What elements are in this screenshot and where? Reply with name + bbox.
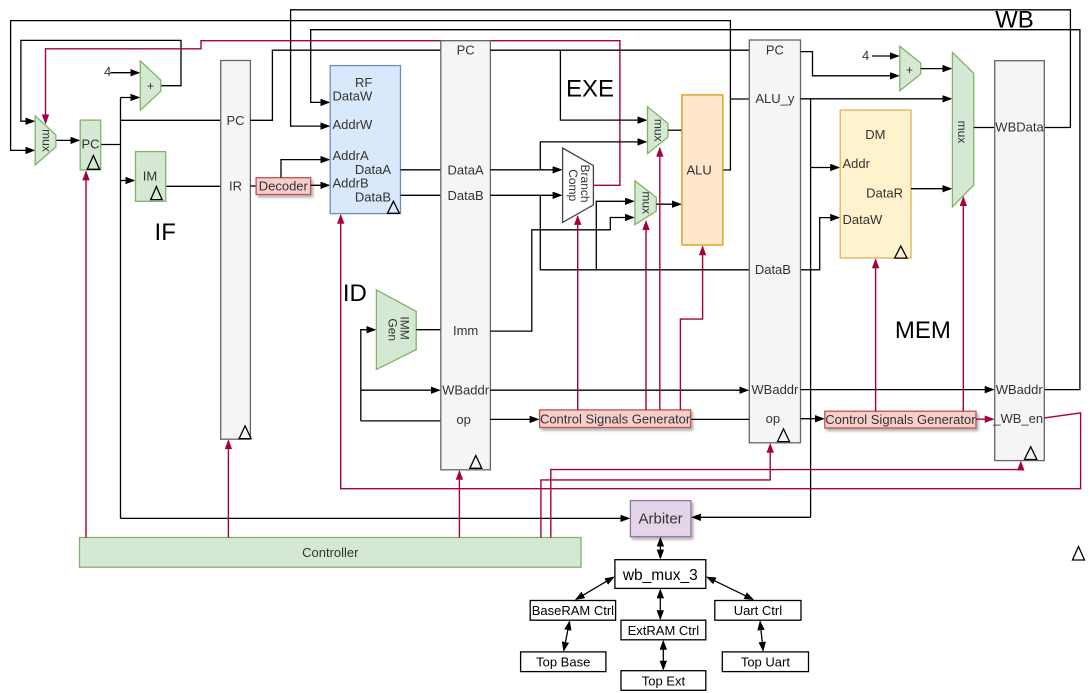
- wire constant 4 into adder A2: [862, 48, 898, 63]
- svg-text:MEM: MEM: [895, 317, 951, 344]
- DM data memory: [840, 110, 911, 258]
- clock triangle of IM: [151, 187, 162, 200]
- wire Controller to IF/ID clock (crimson): [227, 441, 229, 538]
- register PC: [80, 120, 101, 170]
- svg-text:_WB_en: _WB_en: [992, 411, 1043, 426]
- label MEM stage: [895, 317, 951, 344]
- wire wb_mux_3 to Uart Ctrl (double arrow): [707, 577, 753, 599]
- Branch Comp comparator: [563, 148, 594, 222]
- svg-text:PC: PC: [81, 137, 99, 152]
- IM instruction memory: [136, 152, 166, 202]
- wire G2 control to DM (crimson): [875, 260, 877, 411]
- svg-text:AddrW: AddrW: [333, 117, 373, 132]
- svg-text:WBaddr: WBaddr: [996, 382, 1044, 397]
- label ID stage: [343, 280, 367, 307]
- svg-text:PC: PC: [457, 43, 475, 58]
- clock triangle of PC register: [87, 156, 99, 170]
- svg-text:Decoder: Decoder: [259, 179, 309, 194]
- Top Ext: [621, 671, 706, 691]
- wire G1 control to mux M2 (crimson): [659, 148, 661, 410]
- wire IMM Gen out to ID/EX Imm: [416, 329, 441, 331]
- wire G2 out to MEM/WB _WB_en (crimson): [976, 418, 993, 420]
- ExtRAM Ctrl: [621, 620, 706, 640]
- ALU: [682, 95, 723, 245]
- svg-text:4: 4: [862, 48, 869, 63]
- Top Base: [521, 652, 606, 672]
- svg-text:+: +: [906, 63, 913, 77]
- svg-text:DataW: DataW: [333, 89, 373, 104]
- wire IF/ID IR out to Decoder: [250, 185, 256, 187]
- wire Controller to EX/MEM clock (crimson): [541, 444, 770, 537]
- wire Decoder to RF AddrB: [311, 184, 329, 186]
- node DataB net: ID/EX DataB to Branch Comp B, down to EX/MEM DataB, mux M3 input 1: [490, 195, 749, 269]
- svg-text:WBaddr: WBaddr: [442, 383, 490, 398]
- wire adder A2 out to mux M4 input 1: [921, 68, 951, 70]
- svg-text:+: +: [147, 79, 154, 93]
- svg-text:WBaddr: WBaddr: [751, 382, 799, 397]
- mux M2 (ALU input A mux): [648, 107, 669, 154]
- svg-text:IMM Gen: IMM Gen: [385, 316, 411, 343]
- wire EX/MEM WBaddr out to MEM/WB WBaddr: [801, 389, 994, 391]
- svg-text:mux: mux: [651, 119, 665, 142]
- node IR fields trunk: feeds IMM Gen, ID/EX WBaddr and op: [361, 330, 441, 421]
- wire _WB_en feedback (crimson): MEM/WB out, down right edge, along bus to RF clock: [341, 215, 1081, 488]
- svg-text:EXE: EXE: [566, 75, 614, 102]
- wire IF/ID PC out, up and over to ID/EX PC in: [250, 50, 440, 120]
- wire ID/EX WBaddr out to EX/MEM WBaddr: [490, 389, 747, 391]
- wire Controller to MEM/WB clock (crimson): [551, 462, 1021, 537]
- svg-text:Arbiter: Arbiter: [639, 511, 683, 528]
- wire ALU result to EX/MEM ALU_y input: [730, 98, 749, 100]
- IMM Gen immediate generator: [376, 290, 416, 370]
- mux M4 (write-back mux): [952, 52, 973, 206]
- pipeline register IF/ID: [221, 61, 251, 440]
- control signals generator G1: [540, 410, 691, 428]
- wire IM out to IF/ID IR: [166, 185, 221, 187]
- svg-text:ALU: ALU: [687, 162, 712, 177]
- svg-text:op: op: [766, 411, 780, 426]
- svg-text:Top Base: Top Base: [536, 655, 590, 670]
- svg-text:DM: DM: [865, 127, 885, 142]
- label EXE stage: [566, 75, 614, 102]
- svg-text:WB: WB: [995, 7, 1034, 34]
- decoder U1: [256, 178, 311, 195]
- Top Uart: [722, 652, 808, 672]
- wire EX/MEM op out to Control Signals Generator G2: [801, 418, 824, 420]
- svg-text:mux: mux: [639, 191, 653, 214]
- wire ID/EX op out to Control Signals Generator G1: [490, 418, 538, 420]
- controller: [80, 538, 582, 568]
- svg-text:DataB: DataB: [755, 262, 791, 277]
- svg-text:BaseRAM Ctrl: BaseRAM Ctrl: [532, 603, 614, 618]
- svg-text:Top Ext: Top Ext: [642, 673, 686, 688]
- node PC trunk: PC register out to adder A1, IF/ID PC, IM, and Arbiter: [101, 98, 629, 519]
- wire DM DataR out to mux M4 input 3: [911, 188, 951, 190]
- wire WBaddr feedback: MEM/WB WBaddr out, up far right side, along top, down to RF DataW: [311, 30, 1080, 390]
- wire G1 out to EX/MEM op: [691, 418, 750, 420]
- clock triangle of IF/ID: [239, 426, 251, 439]
- svg-text:Control Signals Generator: Control Signals Generator: [540, 411, 691, 426]
- clock triangle of EX/MEM: [778, 429, 790, 442]
- svg-text:DataB: DataB: [448, 188, 484, 203]
- wire ALU branch target: ALU out, up, along top, down left edge to mux M1 input 2: [11, 21, 731, 170]
- control signals generator G2: [825, 411, 976, 428]
- wire WBData feedback: MEM/WB WBData out, up right side, along top, down to RF AddrW: [291, 10, 1071, 128]
- svg-text:Branch Comp: Branch Comp: [566, 165, 592, 206]
- svg-text:WBData: WBData: [995, 120, 1044, 135]
- pipeline register EX/MEM: [749, 40, 800, 443]
- adder A2 (PC + 4): [900, 46, 921, 90]
- wire Controller to ID/EX clock (crimson): [458, 471, 460, 537]
- wire mux M4 out to MEM/WB WBData: [974, 127, 995, 129]
- wire mux M1 out to PC register: [56, 139, 79, 141]
- Uart Ctrl: [715, 601, 801, 621]
- svg-text:mux: mux: [39, 129, 53, 152]
- svg-text:IR: IR: [229, 179, 242, 194]
- svg-text:DataW: DataW: [843, 212, 883, 227]
- svg-text:Control Signals Generator: Control Signals Generator: [825, 412, 976, 427]
- mux M1 (PC source mux): [35, 116, 56, 165]
- wire Arbiter to wb_mux_3 (double arrow): [659, 538, 661, 558]
- wire EX/MEM DataB out up to DM DataW: [801, 218, 839, 270]
- wire G1 control to Branch Comp (crimson): [577, 216, 579, 410]
- svg-text:Uart Ctrl: Uart Ctrl: [734, 603, 783, 618]
- arbiter: [630, 501, 691, 537]
- svg-text:op: op: [456, 412, 470, 427]
- svg-text:wb_mux_3: wb_mux_3: [622, 567, 698, 584]
- wire ID/EX PC out to EX/MEM PC with branch down to mux M2 input 1: [490, 50, 749, 120]
- wire wb_mux_3 to ExtRAM Ctrl (double arrow): [659, 590, 661, 619]
- clock triangle of MEM/WB: [1025, 447, 1037, 460]
- wire G2 control to mux M4 (crimson): [962, 198, 964, 412]
- svg-text:DataB: DataB: [355, 190, 391, 205]
- svg-text:Imm: Imm: [453, 323, 478, 338]
- svg-text:DataR: DataR: [866, 186, 903, 201]
- wire G1 control to ALU (crimson): [680, 247, 702, 410]
- svg-text:ExtRAM Ctrl: ExtRAM Ctrl: [628, 623, 700, 638]
- wire Decoder to RF AddrA: [281, 160, 329, 178]
- wire ExtRAM Ctrl to Top Ext (double arrow): [662, 641, 664, 669]
- wire Controller to PC register clock (crimson): [85, 172, 87, 538]
- svg-text:4: 4: [104, 64, 111, 79]
- wire EX/MEM PC out to adder A2: [801, 52, 899, 76]
- wire mux M3 out to ALU: [656, 203, 680, 205]
- wire mux M2 out to ALU: [668, 129, 682, 131]
- svg-text:IM: IM: [143, 169, 157, 184]
- label WB stage: [995, 7, 1034, 34]
- wire BaseRAM Ctrl to Top Base (double arrow): [564, 622, 570, 651]
- register file RF: [330, 66, 400, 214]
- node ALU_y net: EX/MEM ALU_y out to mux M4, down to DM Addr and Arbiter: [692, 99, 951, 518]
- svg-text:mux: mux: [955, 121, 969, 144]
- svg-text:Addr: Addr: [843, 156, 871, 171]
- wire PC+4: adder A1 out, up, along y=40, down to mux M1 input 1: [21, 40, 181, 121]
- svg-text:IF: IF: [155, 219, 176, 246]
- wire G1 control to mux M3 (crimson): [645, 222, 647, 410]
- wire RF DataB out to ID/EX: [401, 194, 441, 196]
- svg-text:AddrA: AddrA: [333, 148, 369, 163]
- BaseRAM Ctrl: [530, 601, 615, 621]
- wire RF DataA out to ID/EX: [401, 169, 441, 171]
- wb_mux_3: [615, 560, 706, 589]
- svg-text:Controller: Controller: [302, 545, 359, 560]
- svg-text:PC: PC: [766, 43, 784, 58]
- node DataA net: ID/EX DataA to Branch Comp A and up to mux M2 input 2: [490, 142, 646, 170]
- clock triangle of ID/EX: [470, 456, 482, 469]
- svg-text:DataA: DataA: [448, 162, 484, 177]
- svg-text:ALU_y: ALU_y: [755, 91, 795, 106]
- standalone clock triangle symbol bottom right: [1073, 547, 1085, 561]
- wire constant 4 into adder A1: [104, 64, 139, 79]
- wire Imm net: ID/EX Imm out, up, over to mux M3 input 2: [490, 218, 633, 332]
- clock triangle of DM: [895, 246, 907, 258]
- wire Uart Ctrl to Top Uart (double arrow): [760, 622, 763, 651]
- svg-text:PC: PC: [226, 113, 244, 128]
- pipeline register ID/EX: [441, 41, 491, 470]
- pipeline register MEM/WB: [992, 61, 1044, 461]
- wire branch-taken (crimson): Branch Comp out, up, along y=41 with jog, down into mux M1 select: [46, 41, 620, 186]
- clock triangle of RF: [387, 201, 399, 213]
- label IF stage: [155, 219, 176, 246]
- mux M3 (ALU input B mux): [635, 181, 656, 225]
- adder A1 (PC + 4): [140, 61, 161, 110]
- svg-text:ID: ID: [343, 280, 367, 307]
- svg-text:Top Uart: Top Uart: [741, 655, 791, 670]
- svg-text:AddrB: AddrB: [333, 176, 369, 191]
- wire wb_mux_3 to BaseRAM Ctrl (double arrow): [576, 577, 613, 599]
